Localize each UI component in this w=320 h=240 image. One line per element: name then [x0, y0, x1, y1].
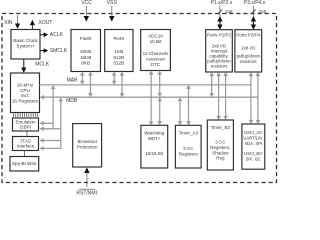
svg-text:16-MHz: 16-MHz	[17, 82, 34, 87]
emulation JTAG feed line from MDB	[60, 101, 62, 149]
dashed chip boundary	[2, 14, 277, 183]
svg-text:10 Bit: 10 Bit	[150, 39, 162, 44]
Flash to MDB double arrow	[89, 75, 91, 93]
svg-text:CPU: CPU	[20, 88, 31, 93]
svg-text:16KB: 16KB	[80, 55, 91, 60]
svg-text:P1.x/P2.x: P1.x/P2.x	[211, 0, 233, 6]
svg-text:System+: System+	[16, 44, 35, 49]
Spy-Bi Wire block	[10, 157, 39, 172]
Ports P3/P4 to USCI double arrow (MDB end)	[257, 76, 259, 120]
Brownout Protection block	[73, 124, 102, 167]
svg-text:2x8: 2x8	[259, 9, 267, 14]
link JTAG to Spy-Bi Wire	[24, 151, 26, 157]
arrow into Emulation upper	[43, 122, 53, 124]
MDB to Timer_A3 double arrow	[179, 101, 181, 122]
svg-text:pullup/down: pullup/down	[237, 53, 261, 58]
svg-text:RAM: RAM	[113, 36, 124, 42]
svg-text:USCI_B0:: USCI_B0:	[244, 151, 263, 156]
svg-text:USCI_A0:: USCI_A0:	[244, 130, 263, 135]
MAB to Timer_A3 double arrow	[188, 89, 190, 122]
USCI block	[242, 124, 265, 169]
svg-text:SMCLK: SMCLK	[50, 48, 68, 54]
pin P3/P4 port line with 2x8 bus slash	[252, 6, 254, 18]
Timer_B3 block	[207, 120, 233, 170]
svg-text:resistors: resistors	[211, 64, 228, 69]
pin VCC supply line	[85, 6, 87, 17]
svg-text:Interface: Interface	[17, 143, 35, 148]
Flash memory block	[71, 30, 101, 72]
svg-text:Timer_A3: Timer_A3	[179, 130, 199, 135]
svg-text:12 Channels: 12 Channels	[143, 51, 169, 56]
svg-text:Flash: Flash	[80, 36, 92, 42]
svg-text:Brownout: Brownout	[77, 139, 97, 144]
svg-text:ACLK: ACLK	[50, 32, 64, 38]
ACLK clock output arrow	[40, 34, 44, 36]
svg-text:Registers: Registers	[179, 151, 199, 156]
svg-text:2x8: 2x8	[225, 9, 233, 14]
svg-text:P3.x/P4.x: P3.x/P4.x	[244, 0, 266, 6]
svg-text:UART/LIN,: UART/LIN,	[243, 135, 263, 140]
pin VSS supply line	[111, 6, 113, 17]
svg-text:Registers,: Registers,	[210, 145, 230, 150]
JTAG Interface block	[13, 137, 39, 151]
MDB to Watchdog double arrow	[159, 101, 161, 122]
link Emulation to JTAG	[26, 131, 28, 137]
ADC10 to Watchdog MAB double arrow	[150, 74, 152, 121]
svg-text:Ports P3/P4: Ports P3/P4	[236, 33, 261, 38]
Ports P1/P2 to MDB double arrow	[211, 76, 213, 94]
Basic Clock System+ block	[11, 30, 40, 60]
svg-text:VSS: VSS	[107, 0, 118, 6]
svg-text:Reg: Reg	[216, 156, 225, 161]
XOUT output arrow	[31, 25, 33, 29]
arrow into JTAG lower	[43, 147, 61, 149]
svg-text:3 CC: 3 CC	[215, 139, 226, 144]
svg-text:XOUT: XOUT	[39, 20, 53, 26]
arrow into Emulation lower	[43, 128, 61, 130]
RAM to MDB double arrow	[121, 75, 123, 93]
svg-text:16 Registers: 16 Registers	[12, 99, 39, 104]
pin P1/P2 port line with 2x8 bus slash	[219, 6, 221, 18]
svg-text:incl.: incl.	[21, 93, 29, 98]
XIN input arrow	[17, 15, 19, 23]
ADC10 to MDB double arrow	[159, 74, 161, 93]
svg-text:IrDA, SPI: IrDA, SPI	[245, 141, 262, 146]
port P3/P4 double arrow	[252, 21, 254, 25]
svg-text:3 CC: 3 CC	[183, 146, 194, 151]
emulation feed line from MAB	[52, 88, 54, 129]
svg-text:(2BP): (2BP)	[20, 125, 32, 130]
svg-text:8KB: 8KB	[81, 61, 90, 66]
Ports P1/P2 to Timer_B3 double arrow	[218, 76, 220, 116]
Timer_A3 block	[175, 125, 201, 168]
svg-text:VCC: VCC	[81, 0, 92, 6]
MAB address bus line	[40, 84, 251, 86]
svg-text:1KB: 1KB	[114, 49, 123, 54]
svg-text:WDT+: WDT+	[148, 136, 161, 141]
RAM block	[105, 30, 133, 72]
bus hatch between CPU and Emulation	[13, 113, 15, 117]
Flash to MAB double arrow	[81, 75, 83, 81]
RAM to MAB double arrow	[113, 75, 115, 81]
svg-text:Basic Clock: Basic Clock	[13, 38, 38, 43]
svg-text:ADC10: ADC10	[148, 34, 163, 39]
svg-text:MDB: MDB	[66, 98, 78, 104]
svg-text:Timer_B3: Timer_B3	[211, 125, 231, 130]
Ports P3/P4 block	[235, 30, 262, 72]
svg-text:Autoscan: Autoscan	[146, 57, 166, 62]
svg-text:2x8 I/O: 2x8 I/O	[241, 46, 256, 51]
port P1/P2 double arrow	[219, 21, 221, 25]
svg-text:32KB: 32KB	[80, 49, 91, 54]
svg-text:DTC: DTC	[151, 62, 161, 67]
CPU block 16-MHz incl 16 registers	[11, 73, 40, 113]
MDB data bus line with arrow into CPU	[44, 96, 258, 98]
svg-text:MCLK: MCLK	[35, 62, 50, 68]
arrow into JTAG upper	[43, 140, 61, 142]
ADC10 block	[141, 30, 171, 71]
Ports P1/P2 block	[206, 30, 233, 72]
Ports P1/P2 to Timer_B3 second double arrow	[225, 76, 227, 116]
MCLK clock arrow to CPU	[23, 59, 25, 68]
SMCLK clock output arrow	[40, 50, 44, 52]
svg-text:resistors: resistors	[240, 59, 257, 64]
svg-text:512B: 512B	[113, 55, 124, 60]
RST/NMI reset pin arrow into Brownout	[84, 167, 89, 173]
svg-text:Spy-Bi Wire: Spy-Bi Wire	[12, 161, 37, 166]
svg-text:XIN: XIN	[4, 20, 13, 26]
svg-text:SPI, I2C: SPI, I2C	[246, 156, 262, 161]
Watchdog WDT+ block	[141, 125, 168, 168]
svg-text:MAB: MAB	[67, 77, 79, 83]
svg-text:Ports P1/P2: Ports P1/P2	[207, 33, 232, 38]
svg-text:Shadow: Shadow	[212, 150, 229, 155]
svg-text:Protection: Protection	[77, 145, 98, 150]
svg-text:15/16 Bit: 15/16 Bit	[145, 151, 164, 156]
svg-text:Watchdog: Watchdog	[144, 130, 165, 135]
svg-text:RST/NMI: RST/NMI	[76, 191, 97, 196]
Ports P3/P4 to USCI double arrow (MAB end)	[250, 76, 252, 120]
svg-text:512B: 512B	[113, 61, 124, 66]
Emulation 2BP block	[13, 118, 39, 131]
